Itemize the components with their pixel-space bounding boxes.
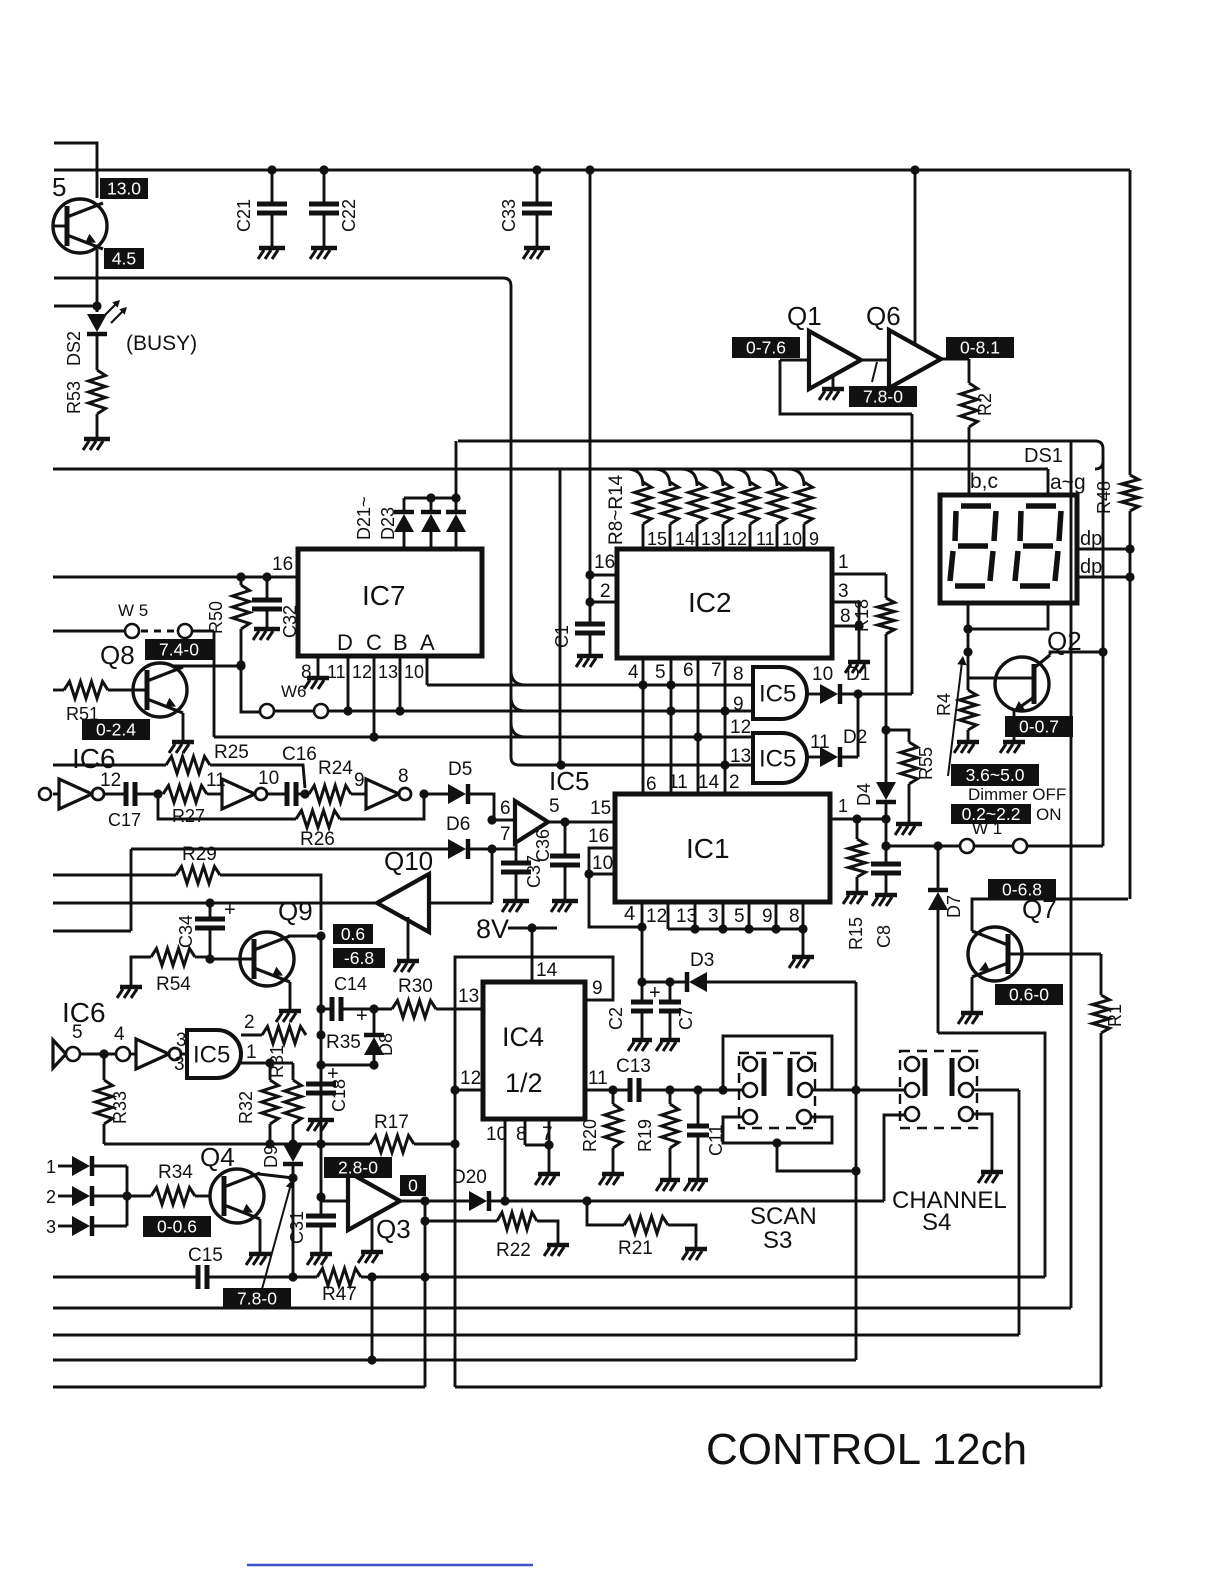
resistor R20 (612, 1090, 615, 1104)
fanout arc to row 685 (511, 671, 526, 685)
diode D20 (425, 1200, 469, 1203)
diode D5 (419, 789, 428, 798)
svg-text:D21~: D21~ (354, 496, 374, 540)
svg-text:2: 2 (600, 581, 611, 602)
svg-text:10: 10 (812, 664, 833, 685)
svg-text:12: 12 (460, 1068, 481, 1089)
wire line5 right (455, 1386, 1101, 1389)
wire hook-bus tap (559, 469, 562, 765)
svg-text:D3: D3 (690, 950, 714, 971)
svg-text:C37: C37 (524, 855, 544, 888)
svg-text:R19: R19 (635, 1119, 655, 1152)
resistor R17 (370, 1136, 414, 1153)
switch S3 contacts (743, 1057, 757, 1071)
svg-text:R2: R2 (975, 393, 995, 416)
wire Q4 emitter (259, 1219, 262, 1252)
inverter IC6-9-8 (366, 779, 399, 809)
node IC4 pin12 (450, 1085, 459, 1094)
resistor R35 (262, 1027, 306, 1044)
wire IC7 pin16 row (53, 576, 298, 579)
wire DS1 a~g drop (1047, 469, 1050, 495)
capacitor C7 (669, 982, 672, 1002)
capacitor C31 (320, 1197, 323, 1216)
voltage label 2.8-0 (324, 1157, 392, 1178)
voltage label 0.6 (333, 924, 373, 944)
wire to S4 bottom-left (884, 1115, 905, 1201)
digit 2 of DS1 (1026, 503, 1056, 509)
capacitor C33 (532, 165, 541, 174)
svg-text:Q3: Q3 (376, 1214, 411, 1244)
svg-text:11: 11 (668, 772, 688, 793)
IC5 buffer (pins 6,7,5) (515, 801, 548, 843)
wire pin7/C37 (492, 843, 516, 849)
voltage label 0 (Q3 out) (400, 1175, 426, 1196)
resistor R31 (292, 1063, 295, 1080)
pin dp upper (1077, 548, 1130, 551)
svg-text:12: 12 (100, 770, 121, 791)
wire Q3 out bus (424, 1201, 427, 1387)
svg-text:Q9: Q9 (278, 896, 313, 926)
resistor R1 (1100, 954, 1103, 995)
gate IC5 upper (753, 667, 807, 719)
svg-text:4: 4 (114, 1024, 125, 1045)
IC1 pin4 (641, 902, 644, 927)
svg-text:15: 15 (647, 529, 667, 549)
svg-text:C18: C18 (329, 1079, 349, 1112)
buffer Q3 (321, 1200, 348, 1203)
svg-text:R54: R54 (156, 974, 191, 995)
wire line5 left (53, 1386, 425, 1389)
switch S4 dashed box (900, 1051, 977, 1128)
wire IC7 pin A drop (426, 656, 429, 685)
svg-text:0-2.4: 0-2.4 (96, 719, 136, 739)
diode D7 (937, 846, 940, 888)
resistor R54 (131, 957, 151, 985)
capacitor C15 row (53, 1276, 198, 1279)
diode D3 (642, 981, 670, 984)
svg-text:C14: C14 (334, 974, 367, 994)
capacitor C8 (885, 819, 888, 864)
IC1 pin16 (589, 848, 615, 874)
wire IC2 pin6 to IC1 pin14 (697, 658, 700, 794)
IC2 pin 2 (590, 601, 617, 604)
diode D9 (283, 1144, 303, 1162)
voltage label 0-8.1 (946, 337, 1014, 358)
svg-text:C34: C34 (176, 915, 196, 948)
wire segment row upper (458, 441, 1103, 469)
voltage label 0-6.8 (988, 879, 1056, 900)
switch S4 contacts (905, 1057, 919, 1071)
resistor R34 (127, 1195, 151, 1198)
wire S3 bottom contacts (723, 1117, 832, 1143)
wire R47 branch to line4 (371, 1277, 374, 1360)
svg-text:8: 8 (733, 664, 744, 685)
svg-text:13: 13 (378, 662, 398, 682)
wire DS1 commons (967, 603, 970, 629)
wire W1 row (886, 845, 960, 848)
svg-text:5: 5 (52, 172, 66, 202)
svg-text:+: + (224, 899, 236, 921)
gate pin2 wire (241, 1034, 262, 1037)
wire IC2 pin7 to IC1 pin2 (724, 658, 727, 794)
wire Q1 feedback loop (780, 360, 912, 414)
svg-text:B: B (393, 630, 408, 655)
node after C16 (300, 789, 309, 798)
IC2 pin 16 (590, 574, 617, 577)
resistor R48 (1129, 170, 1132, 475)
resistor R32 (269, 1063, 272, 1080)
voltage label 0-0.6 (143, 1216, 211, 1237)
svg-text:9: 9 (809, 529, 819, 549)
svg-text:D7: D7 (944, 895, 964, 918)
svg-text:IC5: IC5 (759, 745, 796, 772)
capacitor C16 (267, 793, 287, 796)
wire pin4 node to D3 (641, 927, 644, 982)
svg-text:5: 5 (734, 906, 745, 927)
wire row A (IC7-A to IC5 pin8) (427, 684, 753, 687)
svg-text:R4: R4 (934, 693, 954, 716)
buffer Q10 (377, 874, 429, 932)
svg-text:8: 8 (789, 906, 800, 927)
svg-text:9: 9 (733, 694, 744, 715)
wire D8 row (321, 1064, 374, 1067)
svg-text:13: 13 (730, 746, 751, 767)
wire S4 bottom-right ground (973, 1114, 992, 1170)
resistor R29 (53, 874, 176, 877)
node C11 (693, 1085, 702, 1094)
voltage label 7.4-0 (145, 639, 213, 660)
svg-text:DS1: DS1 (1024, 445, 1063, 467)
svg-text:9: 9 (762, 906, 773, 927)
inverter IC6 pin5 (partial) (53, 1040, 66, 1068)
svg-text:D5: D5 (448, 759, 472, 780)
resistor R27 (163, 786, 207, 803)
svg-text:16: 16 (594, 552, 615, 573)
svg-text:R47: R47 (322, 1284, 357, 1305)
wire D20 row (505, 1200, 884, 1203)
svg-text:3: 3 (708, 906, 719, 927)
svg-text:C7: C7 (676, 1007, 696, 1030)
svg-text:a~g: a~g (1050, 471, 1086, 494)
node D1-D2 (853, 689, 862, 698)
svg-text:D8: D8 (376, 1033, 396, 1056)
svg-text:R33: R33 (110, 1091, 130, 1124)
node top bus junction (910, 165, 919, 174)
wire 4.5V row to fanout (54, 278, 753, 765)
svg-text:3: 3 (174, 1054, 185, 1075)
resistor R51 (53, 689, 64, 692)
svg-text:5: 5 (655, 662, 666, 683)
wire row 931 (53, 930, 131, 933)
IC1 pin1 row (830, 818, 886, 821)
wire Q4 collector (259, 1174, 293, 1178)
diode D22 (426, 493, 435, 502)
wire node row 1144 (104, 1143, 370, 1146)
voltage label 13.0 (100, 178, 148, 199)
svg-text:CONTROL 12ch: CONTROL 12ch (706, 1425, 1027, 1474)
svg-text:IC7: IC7 (362, 580, 406, 611)
wire row B (W6 to IC5 pin9) (348, 710, 753, 713)
ground Q10 (407, 917, 410, 959)
voltage label 0.6-0 (995, 984, 1063, 1005)
wire D3 to switch bus (855, 982, 858, 1360)
resistor R22 (425, 1220, 497, 1223)
svg-text:C17: C17 (108, 810, 141, 830)
svg-text:7: 7 (542, 1124, 553, 1145)
diode D23 (455, 441, 458, 498)
svg-text:0-7.6: 0-7.6 (746, 337, 786, 357)
voltage label 0-7.6 (732, 337, 800, 358)
svg-text:16: 16 (588, 826, 609, 847)
capacitor C22 (319, 165, 328, 174)
transistor Q2 (995, 657, 1049, 711)
capacitor C32 (266, 577, 269, 600)
svg-text:12: 12 (730, 717, 751, 738)
svg-text:R15: R15 (846, 917, 866, 950)
svg-text:1: 1 (46, 1157, 56, 1177)
wire to link 4 (80, 1053, 116, 1056)
svg-text:C22: C22 (339, 199, 359, 232)
svg-text:D20: D20 (452, 1167, 487, 1188)
svg-text:D1: D1 (846, 664, 870, 685)
svg-text:1/2: 1/2 (505, 1068, 543, 1098)
svg-text:8: 8 (516, 1124, 527, 1145)
IC4 pin11 (585, 1089, 630, 1092)
transistor Q7 (968, 927, 1022, 981)
svg-text:9: 9 (354, 770, 365, 791)
svg-text:8: 8 (301, 662, 312, 683)
diode D4 (885, 730, 888, 782)
svg-text:C33: C33 (499, 199, 519, 232)
wire S4 left to bus (856, 1089, 905, 1092)
svg-text:IC5: IC5 (549, 766, 589, 796)
svg-text:D6: D6 (446, 814, 470, 835)
svg-text:C1: C1 (552, 625, 572, 648)
svg-text:C8: C8 (874, 925, 894, 948)
svg-text:R30: R30 (398, 976, 433, 997)
wire right bus line2 vertical (1070, 441, 1073, 1308)
digit 1 of DS1 (961, 503, 991, 509)
svg-text:12: 12 (646, 906, 667, 927)
wire W1 to segment net (1102, 461, 1105, 846)
wire row D (fanout to IC5 pin13) (519, 764, 753, 767)
gate IC5 lower-left (180, 1053, 187, 1056)
resistor R15 (856, 819, 859, 839)
IC4 pin10 stub (504, 1119, 507, 1201)
resistors R8~R14 (627, 469, 643, 486)
svg-text:R17: R17 (374, 1112, 409, 1133)
svg-text:4: 4 (628, 662, 639, 683)
svg-text:7.8-0: 7.8-0 (237, 1288, 277, 1308)
resistor R21 (587, 1201, 624, 1225)
svg-text:C16: C16 (282, 744, 317, 765)
node Q5-DS2 junction (54, 305, 97, 308)
inverter IC6-4-3 (130, 1053, 136, 1056)
resistor R50 (240, 577, 243, 585)
svg-text:13.0: 13.0 (107, 178, 141, 198)
transistor Q4 (210, 1169, 264, 1223)
svg-text:0-8.1: 0-8.1 (960, 337, 1000, 357)
wire line4 (53, 1359, 856, 1362)
IC1 bottom tie (667, 902, 670, 929)
svg-text:11: 11 (756, 529, 775, 549)
svg-text:6: 6 (500, 798, 511, 819)
svg-text:5: 5 (72, 1022, 83, 1043)
capacitor C2 (+) (641, 982, 644, 1002)
wire diode tie (126, 1166, 129, 1226)
capacitor C34 (+) (209, 903, 212, 919)
link W6 (260, 704, 274, 718)
wire top supply bus (54, 169, 1130, 172)
wire R50 node to W6 (241, 666, 260, 712)
wire Q5 emitter to DS2 (96, 249, 99, 312)
wire Q6 supply (914, 170, 917, 346)
svg-text:+: + (356, 1005, 368, 1027)
IC4 box (483, 982, 585, 1119)
artifact blue line (247, 1564, 533, 1566)
svg-text:R27: R27 (172, 806, 205, 826)
transistor Q8 (133, 663, 187, 717)
7-segment display DS1 (940, 495, 1077, 603)
wire C1 bus (589, 170, 592, 624)
wire Q9 collector (288, 935, 321, 938)
svg-text:C21: C21 (234, 199, 254, 232)
voltage label 4.5 (104, 248, 144, 269)
svg-text:16: 16 (272, 554, 293, 575)
svg-text:2: 2 (729, 772, 740, 793)
resistor R4 (963, 647, 972, 656)
svg-text:C2: C2 (606, 1007, 626, 1030)
gate pin1 wire (241, 1062, 270, 1065)
svg-text:R50: R50 (206, 601, 226, 634)
svg-text:2: 2 (46, 1187, 56, 1207)
switch S3 dashed box (739, 1053, 815, 1128)
resistor R24 (309, 786, 351, 803)
svg-text:5: 5 (549, 796, 560, 817)
svg-text:2: 2 (244, 1012, 255, 1033)
svg-text:C15: C15 (188, 1245, 223, 1266)
svg-text:14: 14 (698, 772, 720, 793)
capacitor C1 (575, 622, 605, 627)
svg-text:dp: dp (1080, 556, 1102, 578)
svg-text:Q8: Q8 (100, 640, 135, 670)
IC4 pins 8,7 ground (524, 1119, 527, 1145)
svg-text:Q10: Q10 (384, 846, 433, 876)
node C14-D8 (369, 1004, 378, 1013)
svg-text:10: 10 (782, 529, 802, 549)
svg-text:ON: ON (1036, 805, 1062, 824)
voltage label 3.6~5.0 (951, 764, 1039, 786)
wire row 903 (53, 902, 377, 905)
capacitor C37 (515, 849, 518, 863)
svg-text:R22: R22 (496, 1240, 531, 1261)
resistor R2 (968, 359, 971, 383)
ground Q3 (371, 1215, 374, 1250)
resistor R55 (881, 725, 890, 734)
svg-text:2.8-0: 2.8-0 (338, 1157, 378, 1177)
svg-text:Q4: Q4 (200, 1142, 235, 1172)
resistor R18 (885, 574, 888, 598)
IC2 pin 3 (832, 602, 859, 626)
node Q3 output (400, 1200, 425, 1203)
resistor R19 (669, 1090, 672, 1104)
resistor R30 (374, 1008, 392, 1011)
svg-text:10: 10 (486, 1124, 507, 1145)
svg-text:15: 15 (590, 798, 611, 819)
IC7 pin 8 ground (317, 656, 320, 676)
buffer Q1 (809, 331, 861, 389)
svg-text:R55: R55 (916, 747, 936, 780)
voltage label 7.8-0 (Q4) (223, 1288, 291, 1309)
wire left bus 131 (130, 849, 133, 931)
wire D7 to line1 (938, 1033, 1045, 1277)
inverter IC6-11-10 (222, 779, 255, 809)
svg-text:10: 10 (592, 853, 613, 874)
svg-text:D: D (337, 630, 353, 655)
svg-text:0: 0 (408, 1175, 418, 1195)
IC2 box (617, 549, 832, 658)
wire D2 up to D1 (857, 694, 860, 757)
svg-text:S3: S3 (763, 1227, 792, 1254)
svg-text:(BUSY): (BUSY) (126, 332, 197, 355)
svg-text:IC4: IC4 (502, 1022, 544, 1052)
wire Q8 emitter (182, 713, 185, 740)
wire Q5 collector stub (54, 143, 97, 198)
svg-text:R20: R20 (580, 1119, 600, 1152)
annotation tick 7.8-0 (872, 362, 877, 382)
svg-text:R29: R29 (182, 844, 217, 865)
svg-text:W 5: W 5 (118, 601, 148, 620)
diode D2 (807, 756, 820, 759)
svg-text:D2: D2 (843, 727, 867, 748)
link W1 (960, 839, 974, 853)
capacitor C17 (104, 793, 126, 796)
svg-text:R31: R31 (267, 1045, 287, 1078)
wire Q7 emitter (971, 977, 974, 1011)
transistor Q5 (53, 199, 107, 253)
svg-text:3: 3 (176, 1030, 187, 1051)
fanout arc to row 711 (511, 697, 526, 711)
inverter IC6-12 (39, 788, 51, 800)
gate IC5 lower (753, 733, 807, 783)
svg-text:6: 6 (683, 660, 694, 681)
wire IC7 pin D drop (347, 656, 350, 711)
svg-text:IC1: IC1 (686, 833, 730, 864)
capacitor C21 (267, 165, 276, 174)
svg-text:DS2: DS2 (64, 331, 84, 366)
svg-text:13: 13 (701, 529, 721, 549)
wire S4 to line3 (1018, 1090, 1021, 1335)
capacitor C11 (697, 1090, 700, 1126)
svg-text:7: 7 (711, 660, 722, 681)
voltage label 0-2.4 (82, 719, 150, 740)
svg-text:1: 1 (838, 796, 848, 816)
svg-text:+: + (649, 982, 661, 1004)
diode D21 (403, 498, 406, 512)
wire S3 common (723, 1089, 743, 1092)
IC4 pin9 loop (455, 957, 613, 1387)
wire buffer out to IC1 pin15 (548, 821, 615, 824)
svg-text:1: 1 (246, 1042, 257, 1063)
diode D6 (131, 848, 448, 851)
IC2 pin 1 (832, 573, 886, 576)
voltage label 0-0.7 (1005, 716, 1073, 737)
resistor R53 (89, 370, 106, 414)
svg-text:0-0.7: 0-0.7 (1019, 716, 1059, 736)
svg-text:13: 13 (676, 906, 697, 927)
ground R53 (84, 437, 110, 442)
annotation arrow 7.8-0 (262, 1184, 291, 1289)
